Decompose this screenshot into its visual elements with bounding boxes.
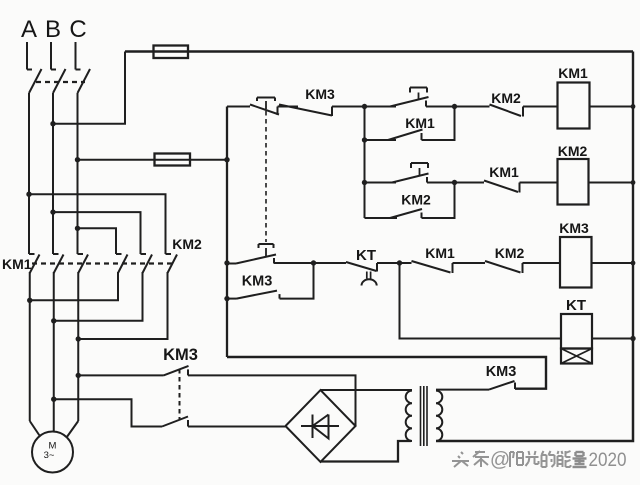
stop button SB1 cap — [257, 97, 275, 99]
svg-text:KM3: KM3 — [486, 364, 517, 380]
wire coil KM2 to rail — [589, 182, 634, 184]
wire — [314, 262, 347, 264]
wire phase outputs down — [29, 272, 31, 421]
bridge rectifier VC — [286, 390, 356, 462]
svg-text:KM1: KM1 — [2, 256, 32, 272]
rectifier diode — [301, 425, 339, 427]
node rung1 b — [452, 104, 457, 109]
coil KT delay element — [561, 349, 592, 364]
start button SB2 cap — [410, 87, 427, 89]
svg-text:KT: KT — [356, 247, 376, 264]
wire KM1 aux right — [422, 107, 455, 141]
contactor KM2 main contact pole 2 — [141, 253, 147, 255]
contactor KM2 main contact pole 3 — [166, 253, 172, 255]
stop button SB1 (NC) — [250, 105, 279, 115]
coil KM3 — [560, 237, 592, 288]
stop button SB1 plunger — [265, 101, 267, 109]
svg-text:KM1: KM1 — [489, 164, 519, 180]
wire coil KM3 to rail — [592, 262, 634, 264]
node rung3 left — [224, 260, 229, 265]
wire V to KM3 brake contact 2 — [54, 399, 162, 426]
wire KM3 control to bottom bus — [227, 357, 546, 389]
KT delay symbol — [366, 272, 368, 279]
brake button plunger — [265, 248, 267, 257]
start button SB3 plunger — [419, 168, 421, 176]
svg-text:A: A — [21, 16, 37, 43]
start button SB2 (NO) — [390, 97, 429, 107]
svg-text:KT: KT — [566, 297, 586, 314]
wire secondary top to KM3 contact — [436, 389, 489, 391]
switch QS blade A — [29, 69, 42, 93]
contact KT time-delay (NC-delay) — [346, 262, 377, 271]
node KM1 aux branch — [362, 137, 367, 142]
contactor KM3 brake contact 2 — [162, 417, 188, 427]
wire KM3 aux right — [280, 263, 314, 299]
wire KM3 brake 2 to rectifier - — [188, 426, 286, 428]
wire W to KM3 brake contact — [78, 374, 163, 376]
svg-text:2020: 2020 — [589, 450, 627, 471]
wire phase A vertical — [28, 93, 30, 254]
svg-text:3~: 3~ — [44, 450, 55, 461]
switch QS blade C — [78, 69, 91, 93]
motor M — [32, 432, 73, 473]
switch QS blade B — [53, 69, 66, 93]
node W to braking — [76, 373, 81, 378]
supply terminal C — [75, 42, 77, 70]
svg-text:KM3: KM3 — [242, 274, 273, 290]
wire KM1 aux — [365, 139, 397, 141]
contactor KM3 control contact — [489, 381, 515, 390]
wire KT branch — [400, 263, 562, 339]
svg-text:KM2: KM2 — [172, 236, 202, 252]
node rung2 b — [452, 180, 457, 185]
contactor KM1 main contact pole 3 — [78, 253, 84, 255]
fuse FU2 — [155, 154, 191, 166]
wire phase C vertical — [77, 93, 79, 254]
contact KM3 (NC) rung1 — [279, 105, 332, 116]
wire — [520, 182, 558, 184]
svg-text:KM3: KM3 — [305, 86, 335, 102]
svg-text:KM2: KM2 — [491, 90, 521, 106]
brake button (NO) rung3 — [227, 263, 236, 265]
wire KM3 brake to rectifier + — [188, 375, 356, 426]
node W tie — [76, 336, 81, 341]
wire — [332, 106, 396, 108]
watermark liang (solid) — [573, 452, 587, 467]
svg-text:KM3: KM3 — [559, 220, 589, 236]
contact KM2 (NC) rung3 — [485, 261, 521, 273]
node rail rung1 — [631, 104, 636, 109]
wire rectifier top to primary — [321, 389, 413, 391]
wire left control rail — [226, 107, 228, 358]
node rail rung3 — [631, 261, 636, 266]
transformer TC primary winding — [406, 391, 412, 441]
node rail KT — [630, 336, 635, 341]
transformer TC secondary winding — [436, 391, 442, 441]
wire B to KM2 pole2 — [53, 212, 141, 254]
wire — [426, 106, 490, 108]
wire A to KM2 pole3 — [29, 194, 166, 254]
wire coil KT to rail — [592, 338, 633, 340]
node C crossover — [75, 226, 80, 231]
wire U tie — [30, 272, 118, 300]
contactor KM3 brake contact 1 — [164, 366, 189, 376]
brake button cap — [259, 243, 274, 245]
switch QS linkage (dashed) — [36, 81, 85, 83]
wire — [523, 262, 561, 264]
wire rung2 — [365, 182, 397, 184]
node rung1 a — [362, 104, 367, 109]
watermark — [452, 451, 489, 467]
coil KM1 — [558, 83, 590, 129]
wire phase B vertical — [52, 93, 54, 254]
wire right control rail — [632, 52, 634, 339]
svg-text:KM1: KM1 — [558, 65, 588, 81]
wire KM2 aux branch — [365, 217, 398, 219]
KM1/KM2 main contacts linkage (dashed) — [32, 262, 176, 264]
KM1 self-hold branch left — [364, 107, 366, 219]
svg-text:C: C — [69, 16, 86, 43]
contact KM1 auxiliary (NO) — [388, 130, 423, 141]
wire — [274, 262, 314, 264]
svg-text:KM2: KM2 — [558, 143, 588, 159]
svg-text:KM3: KM3 — [163, 346, 198, 364]
contact KM1 (NC) rung3 — [412, 261, 451, 273]
coil KM2 — [558, 159, 589, 205]
wire W tie — [78, 272, 167, 339]
node rail rung2 — [631, 180, 636, 185]
svg-text:KM2: KM2 — [495, 245, 525, 261]
wire top bus — [125, 50, 633, 53]
node V to braking — [51, 397, 56, 402]
transformer TC core — [420, 386, 422, 446]
contactor KM1 main contact pole 2 — [53, 253, 59, 255]
motor M leads — [30, 421, 41, 437]
wire V tie — [54, 272, 143, 321]
fuse FU1 — [154, 46, 189, 59]
start button SB2 plunger — [418, 93, 420, 100]
wire rectifier bottom to primary — [321, 441, 412, 462]
node rung3 a — [311, 260, 316, 265]
start button SB3 (NO) — [392, 174, 429, 183]
supply terminal B — [50, 42, 52, 70]
wire coil KM1 to rail — [590, 106, 634, 108]
contactor KM1 main contact pole 1 — [29, 253, 35, 255]
wire C to KM2 pole1 — [78, 228, 117, 254]
wire — [453, 262, 486, 264]
wire C to FU2 — [78, 159, 228, 161]
KM3 brake linkage (dashed) — [179, 369, 181, 419]
wire KM2 aux right — [422, 183, 455, 219]
wire rung1 left — [227, 106, 250, 108]
svg-text:KM1: KM1 — [405, 115, 435, 131]
compound button linkage (dashed) — [265, 111, 267, 242]
node KM3 aux left — [224, 296, 229, 301]
contact KM1 (NC) rung2 — [484, 181, 518, 193]
contact KM2 (NC) rung1 — [490, 105, 522, 117]
wire — [427, 182, 484, 184]
svg-text:B: B — [45, 16, 61, 43]
node FU2 to rail — [224, 157, 229, 162]
contact KM2 auxiliary (NO) — [390, 209, 422, 218]
node KT branch — [397, 260, 402, 265]
wire secondary bottom return — [436, 339, 633, 442]
node B crossover — [50, 209, 55, 214]
svg-text:KM2: KM2 — [401, 192, 431, 208]
svg-text:@: @ — [490, 449, 510, 471]
node V tie — [51, 318, 56, 323]
contactor KM2 main contact pole 1 — [116, 253, 122, 255]
node rung2 left — [362, 180, 367, 185]
wire B to FU1 riser — [53, 52, 125, 124]
svg-text:KM1: KM1 — [425, 245, 455, 261]
node C to FU2 — [75, 157, 80, 162]
node U tie — [27, 298, 32, 303]
wire — [377, 262, 412, 264]
supply terminal A — [26, 42, 28, 70]
contact KM3 auxiliary (NO) — [227, 298, 237, 300]
wire — [278, 106, 299, 108]
wire — [523, 106, 558, 108]
start button SB3 cap — [411, 162, 428, 164]
coil KT — [561, 314, 592, 349]
node B to FU1 — [50, 121, 55, 126]
node A crossover — [26, 192, 31, 197]
